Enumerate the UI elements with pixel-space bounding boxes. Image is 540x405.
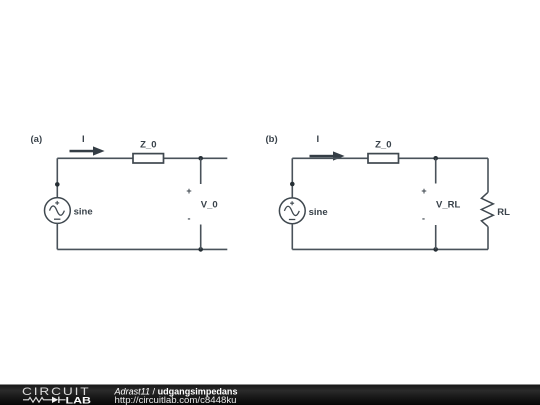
node dot on (b) left wire bbox=[290, 182, 295, 187]
svg-text:V_RL: V_RL bbox=[436, 200, 460, 211]
node dot on (a) left wire bbox=[55, 182, 60, 187]
svg-text:(a): (a) bbox=[31, 134, 43, 145]
wire: (b) Z_0 to load node bbox=[399, 157, 489, 159]
svg-text:I: I bbox=[82, 134, 85, 145]
wire: (b) bottom horizontal bbox=[292, 248, 488, 250]
node dot (a) output bottom bbox=[198, 247, 203, 252]
resistor Z_0 (b) body bbox=[368, 154, 399, 163]
wire: (b) top-left horizontal, source to Z_0 bbox=[292, 157, 368, 159]
wire: (a) left vertical upper bbox=[56, 158, 58, 197]
wire: (a) top-left horizontal, source to Z_0 bbox=[57, 157, 133, 159]
svg-text:+: + bbox=[186, 186, 191, 196]
node dot (b) load bottom bbox=[433, 247, 438, 252]
resistor RL zigzag bbox=[481, 193, 493, 227]
svg-text:LAB: LAB bbox=[66, 395, 92, 405]
logo diode bbox=[52, 397, 58, 403]
resistor Z_0 (a) body bbox=[133, 154, 164, 163]
wire: (b) probe stub upper bbox=[435, 158, 437, 183]
svg-text:V_0: V_0 bbox=[201, 200, 218, 211]
current arrow (a) bbox=[70, 146, 105, 155]
svg-text:I: I bbox=[317, 134, 320, 145]
svg-text:sine: sine bbox=[74, 207, 93, 218]
wire: (a) bottom horizontal bbox=[57, 248, 227, 250]
svg-text:-: - bbox=[188, 213, 191, 223]
svg-text:-: - bbox=[422, 213, 425, 223]
node dot (a) output top bbox=[198, 156, 203, 161]
wire: (a) left vertical lower bbox=[56, 223, 58, 249]
wire: (a) Z_0 to output node bbox=[164, 157, 228, 159]
wire: (b) left vertical upper bbox=[291, 158, 293, 198]
svg-text:sine: sine bbox=[309, 207, 328, 218]
wire: (b) right vertical lower lead bbox=[487, 226, 489, 249]
logo resistor zigzag bbox=[23, 397, 52, 402]
svg-text:RL: RL bbox=[497, 207, 510, 218]
svg-text:Z_0: Z_0 bbox=[375, 140, 391, 151]
wire: (a) probe stub upper bbox=[200, 158, 202, 184]
wire: (a) probe stub lower bbox=[200, 225, 202, 250]
svg-text:+: + bbox=[421, 186, 426, 196]
voltage source V1 sine (a) bbox=[45, 198, 71, 224]
svg-text:(b): (b) bbox=[266, 134, 278, 145]
svg-text:Z_0: Z_0 bbox=[140, 140, 156, 151]
node dot (b) load top bbox=[433, 156, 438, 161]
svg-text:http://circuitlab.com/c8448ku: http://circuitlab.com/c8448ku bbox=[115, 395, 237, 405]
wire: (b) probe stub lower bbox=[435, 225, 437, 249]
wire: (b) left vertical lower bbox=[291, 224, 293, 250]
current arrow (b) bbox=[310, 151, 345, 160]
wire: (b) right vertical upper lead bbox=[487, 158, 489, 192]
voltage source V2 sine (b) bbox=[279, 198, 305, 224]
